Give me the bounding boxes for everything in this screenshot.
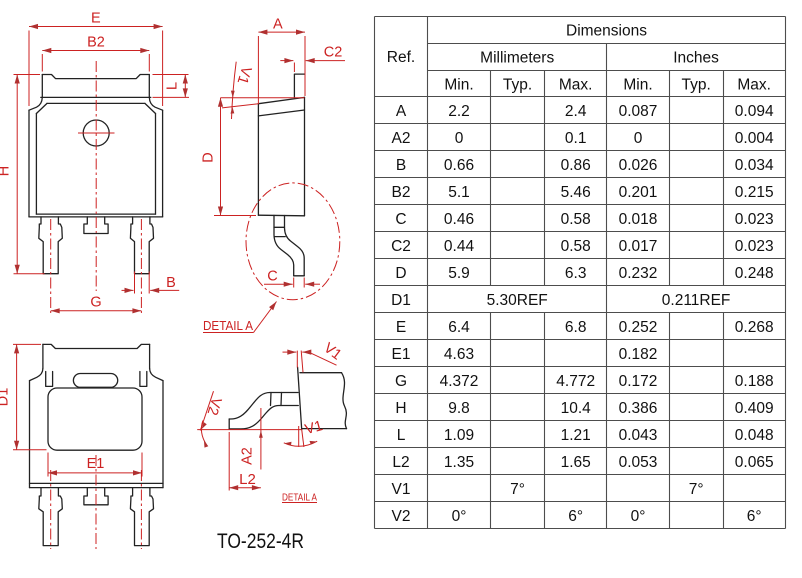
svg-text:C: C xyxy=(395,211,406,228)
svg-text:0°: 0° xyxy=(452,508,467,525)
svg-text:E1: E1 xyxy=(392,346,411,363)
svg-text:0.004: 0.004 xyxy=(735,130,774,147)
dimension E xyxy=(29,11,163,107)
left lead centerline xyxy=(50,219,52,313)
svg-text:1.65: 1.65 xyxy=(561,454,591,471)
svg-text:0.248: 0.248 xyxy=(735,265,774,282)
svg-text:V2: V2 xyxy=(392,508,411,525)
svg-text:0.087: 0.087 xyxy=(619,103,658,120)
svg-text:1.09: 1.09 xyxy=(444,427,474,444)
dimension A xyxy=(258,16,305,104)
front view inner outline xyxy=(36,103,155,214)
svg-text:V1: V1 xyxy=(392,481,411,498)
svg-text:A2: A2 xyxy=(240,447,256,465)
svg-text:0.023: 0.023 xyxy=(735,211,774,228)
svg-text:D1: D1 xyxy=(391,292,411,309)
angle V1 top of detail xyxy=(283,340,345,372)
svg-text:0.094: 0.094 xyxy=(735,103,774,120)
svg-text:5.9: 5.9 xyxy=(448,265,470,282)
svg-text:0°: 0° xyxy=(631,508,646,525)
svg-text:H: H xyxy=(395,400,406,417)
detail A circle xyxy=(246,183,340,300)
detail seating plane line xyxy=(197,429,302,431)
svg-text:C2: C2 xyxy=(324,44,343,60)
svg-text:6.3: 6.3 xyxy=(565,265,587,282)
svg-text:0.026: 0.026 xyxy=(619,157,658,174)
svg-text:G: G xyxy=(90,295,101,311)
svg-text:0.386: 0.386 xyxy=(619,400,658,417)
svg-text:E: E xyxy=(396,319,406,336)
svg-text:6°: 6° xyxy=(568,508,583,525)
svg-text:10.4: 10.4 xyxy=(561,400,592,417)
detail A callout xyxy=(203,302,277,334)
front view center line xyxy=(95,61,97,291)
dimension C2 xyxy=(280,44,345,72)
svg-text:0.58: 0.58 xyxy=(561,211,591,228)
svg-text:Max.: Max. xyxy=(559,76,593,93)
svg-text:V1: V1 xyxy=(321,340,345,363)
right lead centerline xyxy=(140,219,142,313)
svg-text:0.043: 0.043 xyxy=(619,427,658,444)
front left lead xyxy=(39,217,63,274)
svg-text:0.172: 0.172 xyxy=(619,373,658,390)
svg-text:0.44: 0.44 xyxy=(444,238,475,255)
svg-text:7°: 7° xyxy=(510,481,525,498)
svg-text:V1: V1 xyxy=(234,64,254,86)
side view upper lead stub xyxy=(294,74,304,98)
svg-text:0.034: 0.034 xyxy=(735,157,774,174)
svg-text:TO-252-4R: TO-252-4R xyxy=(217,530,304,553)
svg-text:0.268: 0.268 xyxy=(735,319,774,336)
svg-text:DETAIL A: DETAIL A xyxy=(282,493,317,504)
svg-text:Max.: Max. xyxy=(737,76,771,93)
dimension C xyxy=(264,269,320,288)
svg-text:6°: 6° xyxy=(747,508,762,525)
bottom view side notches xyxy=(46,372,53,387)
svg-text:0.053: 0.053 xyxy=(619,454,658,471)
svg-text:6.8: 6.8 xyxy=(565,319,587,336)
svg-text:L2: L2 xyxy=(239,471,256,488)
svg-text:C: C xyxy=(267,269,277,285)
svg-text:4.772: 4.772 xyxy=(556,373,595,390)
dimension H xyxy=(0,75,45,274)
bottom view centerlines xyxy=(50,470,52,549)
detail body xyxy=(298,367,347,429)
svg-text:7°: 7° xyxy=(689,481,704,498)
bottom view pad xyxy=(48,388,142,450)
bottom view outline xyxy=(30,344,164,487)
svg-text:1.35: 1.35 xyxy=(444,454,474,471)
svg-text:2.4: 2.4 xyxy=(565,103,587,120)
svg-text:5.30REF: 5.30REF xyxy=(487,292,548,309)
svg-text:DETAIL A: DETAIL A xyxy=(203,318,253,333)
dimension D xyxy=(201,98,257,216)
svg-text:A2: A2 xyxy=(392,130,411,147)
angle V2 xyxy=(200,391,224,447)
svg-text:6.4: 6.4 xyxy=(448,319,470,336)
svg-text:2.2: 2.2 xyxy=(448,103,470,120)
svg-text:D: D xyxy=(201,152,217,162)
svg-text:E1: E1 xyxy=(87,456,105,472)
svg-text:0.188: 0.188 xyxy=(735,373,774,390)
svg-text:Typ.: Typ. xyxy=(682,76,711,93)
bottom center stub xyxy=(84,488,108,505)
svg-text:G: G xyxy=(395,373,407,390)
front view mounting hole xyxy=(83,120,109,146)
svg-text:0.065: 0.065 xyxy=(735,454,774,471)
svg-text:0.58: 0.58 xyxy=(561,238,591,255)
svg-text:A: A xyxy=(396,103,407,120)
svg-text:B: B xyxy=(396,157,406,174)
svg-text:V2: V2 xyxy=(204,395,224,417)
svg-text:0.182: 0.182 xyxy=(619,346,658,363)
svg-text:L2: L2 xyxy=(392,454,409,471)
svg-text:0.409: 0.409 xyxy=(735,400,774,417)
dimension G xyxy=(51,295,142,311)
svg-text:A: A xyxy=(273,16,283,32)
svg-text:V1: V1 xyxy=(303,418,324,438)
dimension D1 xyxy=(0,344,47,449)
svg-text:0.211REF: 0.211REF xyxy=(662,292,731,309)
svg-text:B: B xyxy=(166,275,176,291)
svg-text:D1: D1 xyxy=(0,388,12,407)
front right lead xyxy=(130,217,153,274)
svg-text:0.252: 0.252 xyxy=(619,319,658,336)
angle V1 bottom of detail xyxy=(284,418,325,447)
svg-text:Ref.: Ref. xyxy=(387,49,415,66)
svg-text:C2: C2 xyxy=(391,238,411,255)
svg-text:Inches: Inches xyxy=(673,49,719,66)
svg-text:Dimensions: Dimensions xyxy=(566,22,647,39)
svg-text:Min.: Min. xyxy=(444,76,473,93)
bottom left lead xyxy=(39,488,63,546)
svg-text:0.232: 0.232 xyxy=(619,265,658,282)
hole crosshair xyxy=(78,132,115,134)
side view gull-wing lead xyxy=(274,215,304,275)
svg-text:B2: B2 xyxy=(87,35,105,51)
bottom right lead xyxy=(130,488,153,546)
svg-text:5.46: 5.46 xyxy=(561,184,591,201)
svg-text:H: H xyxy=(0,166,13,176)
angle V1 side view xyxy=(221,62,305,119)
dimension E1 xyxy=(48,453,142,477)
svg-text:0: 0 xyxy=(634,130,643,147)
svg-text:1.21: 1.21 xyxy=(561,427,591,444)
svg-text:0.1: 0.1 xyxy=(565,130,587,147)
bottom view slot xyxy=(73,374,117,388)
svg-text:5.1: 5.1 xyxy=(448,184,470,201)
svg-text:B2: B2 xyxy=(392,184,411,201)
svg-text:0.66: 0.66 xyxy=(444,157,474,174)
svg-text:0.215: 0.215 xyxy=(735,184,774,201)
svg-text:0.201: 0.201 xyxy=(619,184,658,201)
dimension B2 xyxy=(42,35,149,72)
svg-text:0.017: 0.017 xyxy=(619,238,658,255)
svg-text:0: 0 xyxy=(455,130,464,147)
svg-text:0.023: 0.023 xyxy=(735,238,774,255)
dimension B xyxy=(122,272,180,294)
svg-text:L: L xyxy=(165,82,181,90)
svg-text:E: E xyxy=(91,11,101,27)
front view package outline xyxy=(29,75,163,217)
svg-text:9.8: 9.8 xyxy=(448,400,470,417)
svg-text:0.86: 0.86 xyxy=(561,157,591,174)
side view body xyxy=(258,97,304,215)
svg-text:4.63: 4.63 xyxy=(444,346,474,363)
front center stub xyxy=(84,217,108,234)
dimension A2 xyxy=(240,408,263,470)
dimension L xyxy=(153,75,190,98)
svg-text:0.018: 0.018 xyxy=(619,211,658,228)
dimension L2 xyxy=(229,432,261,491)
svg-text:0.048: 0.048 xyxy=(735,427,774,444)
svg-text:Millimeters: Millimeters xyxy=(480,49,554,66)
svg-text:Typ.: Typ. xyxy=(503,76,532,93)
svg-text:4.372: 4.372 xyxy=(440,373,479,390)
svg-text:L: L xyxy=(397,427,406,444)
svg-text:D: D xyxy=(395,265,406,282)
detail A small label xyxy=(282,493,317,504)
svg-text:Min.: Min. xyxy=(623,76,652,93)
detail lead xyxy=(229,393,298,429)
svg-text:0.46: 0.46 xyxy=(444,211,474,228)
